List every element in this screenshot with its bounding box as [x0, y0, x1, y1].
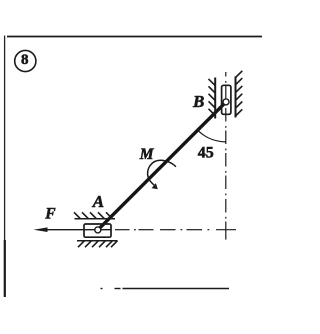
- moment arrowhead: [152, 183, 158, 189]
- svg-text:B: B: [192, 92, 204, 111]
- force F arrow: [46, 229, 111, 231]
- channel left wall: [214, 78, 216, 119]
- slider block B: [222, 85, 231, 114]
- svg-text:F: F: [44, 205, 56, 222]
- lower guide hatching: [78, 241, 118, 248]
- svg-text:A: A: [92, 192, 104, 211]
- channel right wall hatching: [236, 71, 243, 116]
- svg-text:45: 45: [198, 144, 214, 161]
- svg-text:M: M: [139, 146, 155, 163]
- slider block A: [84, 224, 111, 237]
- pin B: [223, 99, 229, 105]
- vertical centerline through B (dash-dot): [225, 72, 227, 240]
- horizontal centerline through A (dash-dot): [115, 229, 236, 231]
- page border left: [4, 36, 6, 241]
- lower guide line at A: [77, 240, 118, 242]
- problem number circle: [15, 50, 36, 71]
- rod AB: [98, 102, 226, 230]
- page border top: [7, 36, 262, 38]
- upper guide hatching: [74, 212, 113, 219]
- svg-text:8: 8: [21, 52, 29, 68]
- channel right wall: [235, 77, 237, 118]
- moment arc M: [148, 160, 176, 185]
- bottom rule dash-dot lead-in: [101, 288, 103, 290]
- bottom rule: [123, 288, 230, 290]
- upper guide line at A: [75, 218, 116, 220]
- channel left wall hatching: [209, 79, 216, 116]
- angle arc 45: [198, 130, 226, 142]
- pin A: [95, 227, 101, 233]
